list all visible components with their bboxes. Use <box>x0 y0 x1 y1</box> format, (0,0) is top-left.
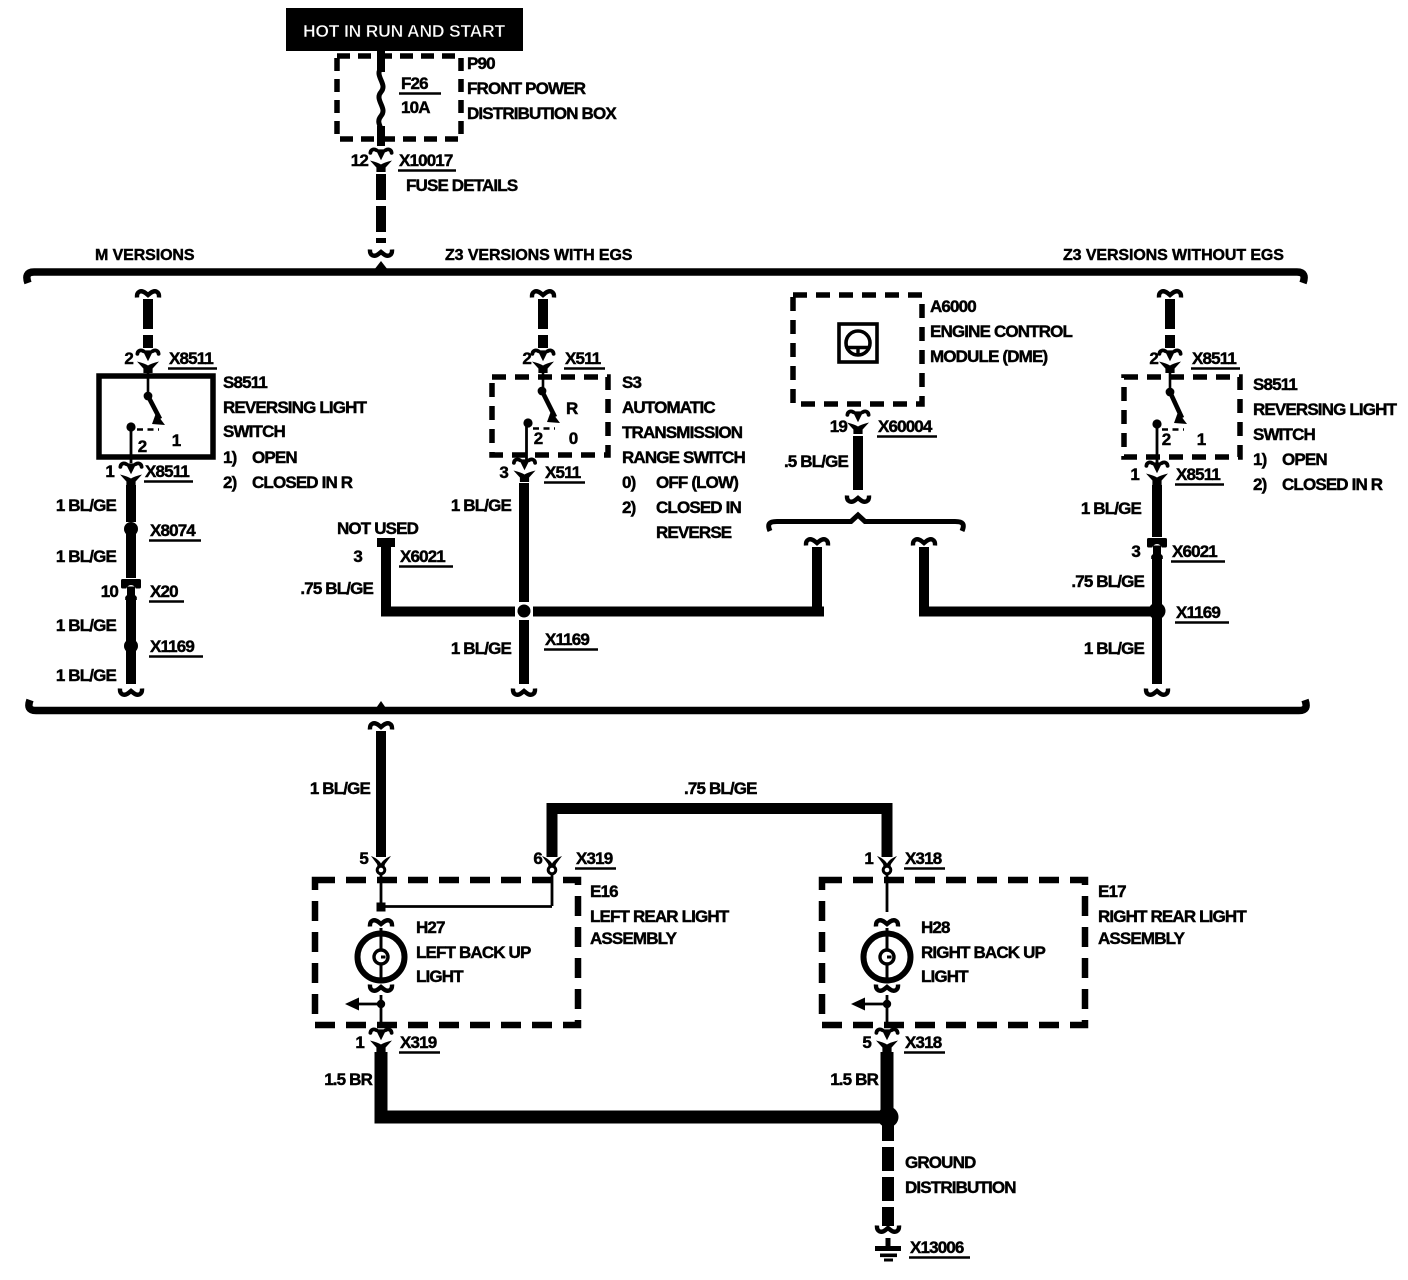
svg-text:X6021: X6021 <box>1172 542 1217 561</box>
svg-text:X511: X511 <box>545 463 581 482</box>
svg-text:3: 3 <box>499 463 508 482</box>
connector X10017 pin 12 <box>351 149 518 195</box>
svg-text:R: R <box>566 399 578 418</box>
switch S3 box (dashed) <box>492 377 608 455</box>
svg-text:1: 1 <box>1130 465 1139 484</box>
fuse box P90 (dashed) <box>337 56 461 139</box>
svg-text:DISTRIBUTION BOX: DISTRIBUTION BOX <box>467 104 617 123</box>
connector X318 pin 5 <box>862 1029 945 1052</box>
wire 1 BL/GE segment to bottom bus <box>126 646 136 684</box>
svg-text:S8511: S8511 <box>223 373 267 392</box>
svg-text:2): 2) <box>1253 475 1267 494</box>
wire 1 BL/GE segment <box>126 485 136 522</box>
svg-text:X6021: X6021 <box>400 547 445 566</box>
power label HOT IN RUN AND START <box>286 8 523 51</box>
wire: fuse to top bus (dashed) <box>376 174 386 243</box>
svg-text:X8511: X8511 <box>145 462 189 481</box>
svg-text:3: 3 <box>353 547 362 566</box>
connector X60004 pin 19 <box>830 411 937 436</box>
label A6000 ENGINE CONTROL MODULE (DME) <box>930 297 1073 366</box>
switch S8511 box (solid) <box>99 376 213 457</box>
svg-text:CLOSED IN R: CLOSED IN R <box>252 473 353 492</box>
svg-text:1: 1 <box>172 431 181 450</box>
svg-text:1 BL/GE: 1 BL/GE <box>1081 499 1142 518</box>
switch S8511 box right (dashed) <box>1124 377 1240 457</box>
connector X8511 pin 1 <box>105 462 193 486</box>
node X1169 (middle junction) <box>515 602 533 620</box>
svg-text:F26: F26 <box>401 74 428 93</box>
svg-text:SWITCH: SWITCH <box>223 422 286 441</box>
svg-text:RIGHT BACK UP: RIGHT BACK UP <box>921 943 1046 962</box>
svg-text:LIGHT: LIGHT <box>921 967 969 986</box>
svg-text:1 BL/GE: 1 BL/GE <box>56 616 117 635</box>
wire .5 BL/GE <box>853 436 863 490</box>
node: ground junction <box>878 1107 899 1128</box>
svg-text:2: 2 <box>534 429 543 448</box>
svg-text:X319: X319 <box>400 1033 437 1052</box>
E17 internal wiring <box>876 873 898 934</box>
label S8511 REVERSING LIGHT SWITCH <box>223 373 368 492</box>
wire 1 BL/GE segment <box>126 598 136 643</box>
svg-text:1.5 BR: 1.5 BR <box>324 1070 372 1089</box>
svg-text:X13006: X13006 <box>910 1238 964 1257</box>
svg-text:X8511: X8511 <box>169 349 213 368</box>
wire 1 BL/GE: bottom bus to E16 pin 5 <box>370 723 392 729</box>
svg-text:P90: P90 <box>467 54 495 73</box>
svg-text:X318: X318 <box>905 1033 942 1052</box>
svg-text:.5 BL/GE: .5 BL/GE <box>784 452 849 471</box>
NOT USED stub X6021 <box>300 519 453 607</box>
svg-text:OFF (LOW): OFF (LOW) <box>656 473 738 492</box>
svg-text:2: 2 <box>138 437 147 456</box>
lamp H28 RIGHT BACK UP LIGHT <box>864 934 911 981</box>
svg-text:X8511: X8511 <box>1192 349 1236 368</box>
svg-text:1 BL/GE: 1 BL/GE <box>56 496 117 515</box>
svg-text:OPEN: OPEN <box>252 448 297 467</box>
connector X8511 pin 2 (right) <box>1149 349 1240 373</box>
connector X20 pin 10 <box>101 579 184 602</box>
switch S3 internals <box>523 379 578 461</box>
svg-text:LIGHT: LIGHT <box>416 967 464 986</box>
wire 1 BL/GE <box>1152 485 1162 537</box>
svg-text:5: 5 <box>862 1033 871 1052</box>
svg-text:AUTOMATIC: AUTOMATIC <box>622 398 715 417</box>
svg-text:X318: X318 <box>905 849 942 868</box>
svg-text:0): 0) <box>622 473 636 492</box>
wire 1 BL/GE segment <box>126 529 136 578</box>
svg-text:FUSE DETAILS: FUSE DETAILS <box>406 176 518 195</box>
lamp H27 LEFT BACK UP LIGHT <box>358 934 405 981</box>
svg-text:HOT IN RUN AND START: HOT IN RUN AND START <box>303 21 506 41</box>
label S8511 REVERSING LIGHT SWITCH (right) <box>1253 375 1398 494</box>
svg-text:1): 1) <box>1253 450 1267 469</box>
splice brace <box>769 515 964 531</box>
svg-text:GROUND: GROUND <box>905 1153 976 1172</box>
svg-text:X511: X511 <box>565 349 601 368</box>
wire: brace left leg <box>806 539 828 545</box>
svg-text:1: 1 <box>105 462 114 481</box>
svg-text:X10017: X10017 <box>399 151 453 170</box>
svg-text:ASSEMBLY: ASSEMBLY <box>590 929 678 948</box>
svg-text:H28: H28 <box>921 918 950 937</box>
svg-text:X1169: X1169 <box>545 630 589 649</box>
svg-text:Z3 VERSIONS WITHOUT EGS: Z3 VERSIONS WITHOUT EGS <box>1063 247 1284 264</box>
E17 lamp to pin 5 <box>851 985 898 1026</box>
connector X511 pin 3 <box>499 459 585 482</box>
svg-text:LEFT BACK UP: LEFT BACK UP <box>416 943 531 962</box>
wire 1 BL/GE switch to bottom bus <box>519 483 529 684</box>
label E16 LEFT REAR LIGHT ASSEMBLY <box>590 882 730 948</box>
svg-text:1.5 BR: 1.5 BR <box>830 1070 878 1089</box>
wire .75 BL/GE: right X1169 area to E16 pin 6 and E17 pin 1 <box>552 809 887 858</box>
svg-text:2: 2 <box>522 349 531 368</box>
svg-text:2): 2) <box>223 473 237 492</box>
wire: header box to fuse <box>377 49 385 72</box>
label E17 RIGHT REAR LIGHT ASSEMBLY <box>1098 882 1247 948</box>
wire 1.5 BR left <box>381 1052 888 1117</box>
connector X8511 pin 2 <box>124 349 217 373</box>
splice X8074 <box>124 522 138 536</box>
svg-text:X8074: X8074 <box>150 521 196 540</box>
svg-text:1 BL/GE: 1 BL/GE <box>451 496 512 515</box>
svg-text:.75 BL/GE: .75 BL/GE <box>300 579 373 598</box>
connector X6021 pin 3 <box>1131 538 1225 562</box>
bus bar top <box>27 272 1304 283</box>
svg-text:REVERSING LIGHT: REVERSING LIGHT <box>1253 400 1398 419</box>
svg-text:1 BL/GE: 1 BL/GE <box>1084 639 1145 658</box>
svg-text:NOT USED: NOT USED <box>337 519 419 538</box>
svg-text:1: 1 <box>1197 430 1206 449</box>
fuse F26 10A <box>379 68 441 146</box>
module A6000 box (dashed) <box>793 295 922 404</box>
svg-text:.75 BL/GE: .75 BL/GE <box>1071 572 1144 591</box>
svg-text:X319: X319 <box>576 849 613 868</box>
svg-text:S8511: S8511 <box>1253 375 1297 394</box>
svg-text:X20: X20 <box>150 582 178 601</box>
node X1169 (right junction) <box>1149 603 1166 620</box>
ground X13006 <box>875 1238 970 1262</box>
assembly E16 box (dashed) <box>315 880 578 1025</box>
svg-text:LEFT REAR LIGHT: LEFT REAR LIGHT <box>590 907 730 926</box>
svg-text:10: 10 <box>101 582 119 601</box>
wire: bus to switch S8511 (right) <box>1159 291 1181 297</box>
svg-text:E17: E17 <box>1098 882 1126 901</box>
svg-text:RIGHT REAR LIGHT: RIGHT REAR LIGHT <box>1098 907 1247 926</box>
svg-text:Z3 VERSIONS WITH EGS: Z3 VERSIONS WITH EGS <box>445 247 633 264</box>
wire .75 BL/GE <box>1152 557 1162 611</box>
switch S8511 internals <box>126 378 180 463</box>
svg-text:CLOSED IN R: CLOSED IN R <box>1282 475 1383 494</box>
svg-text:1 BL/GE: 1 BL/GE <box>451 639 512 658</box>
svg-text:2: 2 <box>1162 430 1171 449</box>
wire 1 BL/GE to bottom bus <box>1152 611 1162 684</box>
connector X8511 pin 1 (right) <box>1130 462 1224 485</box>
svg-text:MODULE (DME): MODULE (DME) <box>930 347 1047 366</box>
bus bar bottom <box>29 700 1306 711</box>
svg-text:TRANSMISSION: TRANSMISSION <box>622 423 743 442</box>
node: fuse wire joins top bus <box>374 261 388 270</box>
svg-text:2: 2 <box>124 349 133 368</box>
svg-text:FRONT POWER: FRONT POWER <box>467 79 586 98</box>
svg-text:2): 2) <box>622 498 636 517</box>
svg-text:1: 1 <box>355 1033 364 1052</box>
connector X318 pin 1 <box>864 849 945 874</box>
label P90 FRONT POWER DISTRIBUTION BOX <box>467 54 617 123</box>
svg-text:10A: 10A <box>401 98 430 117</box>
svg-text:19: 19 <box>830 417 848 436</box>
connector X319 pin 1 <box>355 1029 440 1052</box>
E16 lamp to pin 1 <box>345 985 392 1026</box>
svg-text:CLOSED IN: CLOSED IN <box>656 498 741 517</box>
wire: collector line right segment .75 BL/GE <box>924 607 1156 617</box>
svg-text:X1169: X1169 <box>1176 603 1220 622</box>
svg-text:A6000: A6000 <box>930 297 976 316</box>
svg-text:1 BL/GE: 1 BL/GE <box>56 666 117 685</box>
connector X511 pin 2 <box>522 349 605 373</box>
svg-text:1): 1) <box>223 448 237 467</box>
label S3 AUTOMATIC TRANSMISSION RANGE SWITCH <box>622 373 746 542</box>
svg-text:S3: S3 <box>622 373 641 392</box>
svg-text:REVERSE: REVERSE <box>656 523 732 542</box>
label GROUND DISTRIBUTION <box>905 1153 1016 1197</box>
wire: brace right leg <box>913 539 935 545</box>
svg-text:0: 0 <box>569 429 578 448</box>
splice X1169 (left branch) <box>124 639 138 653</box>
svg-text:3: 3 <box>1131 542 1140 561</box>
svg-text:OPEN: OPEN <box>1282 450 1327 469</box>
node: E16 feed joins bottom bus <box>374 701 388 711</box>
svg-text:E16: E16 <box>590 882 618 901</box>
svg-text:5: 5 <box>359 849 368 868</box>
svg-text:X8511: X8511 <box>1176 465 1220 484</box>
wire: bus to switch S3 <box>532 291 554 297</box>
svg-text:1 BL/GE: 1 BL/GE <box>310 779 371 798</box>
svg-text:ASSEMBLY: ASSEMBLY <box>1098 929 1186 948</box>
switch S8511 right internals <box>1152 379 1205 463</box>
svg-text:H27: H27 <box>416 918 445 937</box>
svg-text:ENGINE CONTROL: ENGINE CONTROL <box>930 322 1073 341</box>
svg-text:12: 12 <box>351 151 369 170</box>
module icon <box>839 324 877 362</box>
wire: collector line left segment .75 BL/GE <box>386 607 817 612</box>
svg-text:SWITCH: SWITCH <box>1253 425 1316 444</box>
wire 1.5 BR right <box>881 1052 894 1117</box>
svg-text:M VERSIONS: M VERSIONS <box>95 247 195 264</box>
connector X319 pins 5,6 <box>359 849 616 874</box>
svg-text:6: 6 <box>533 849 542 868</box>
svg-text:.75 BL/GE: .75 BL/GE <box>684 779 757 798</box>
wire: ground distribution (dashed) <box>882 1117 894 1226</box>
svg-text:DISTRIBUTION: DISTRIBUTION <box>905 1178 1016 1197</box>
wire: bus to switch S8511 <box>137 291 159 297</box>
svg-text:X60004: X60004 <box>878 417 933 436</box>
svg-text:1 BL/GE: 1 BL/GE <box>56 547 117 566</box>
assembly E17 box (dashed) <box>822 880 1085 1025</box>
svg-text:2: 2 <box>1149 349 1158 368</box>
svg-text:1: 1 <box>864 849 873 868</box>
svg-text:RANGE SWITCH: RANGE SWITCH <box>622 448 746 467</box>
E16 internal wiring <box>370 873 552 934</box>
svg-text:REVERSING LIGHT: REVERSING LIGHT <box>223 398 368 417</box>
svg-text:X1169: X1169 <box>150 637 194 656</box>
